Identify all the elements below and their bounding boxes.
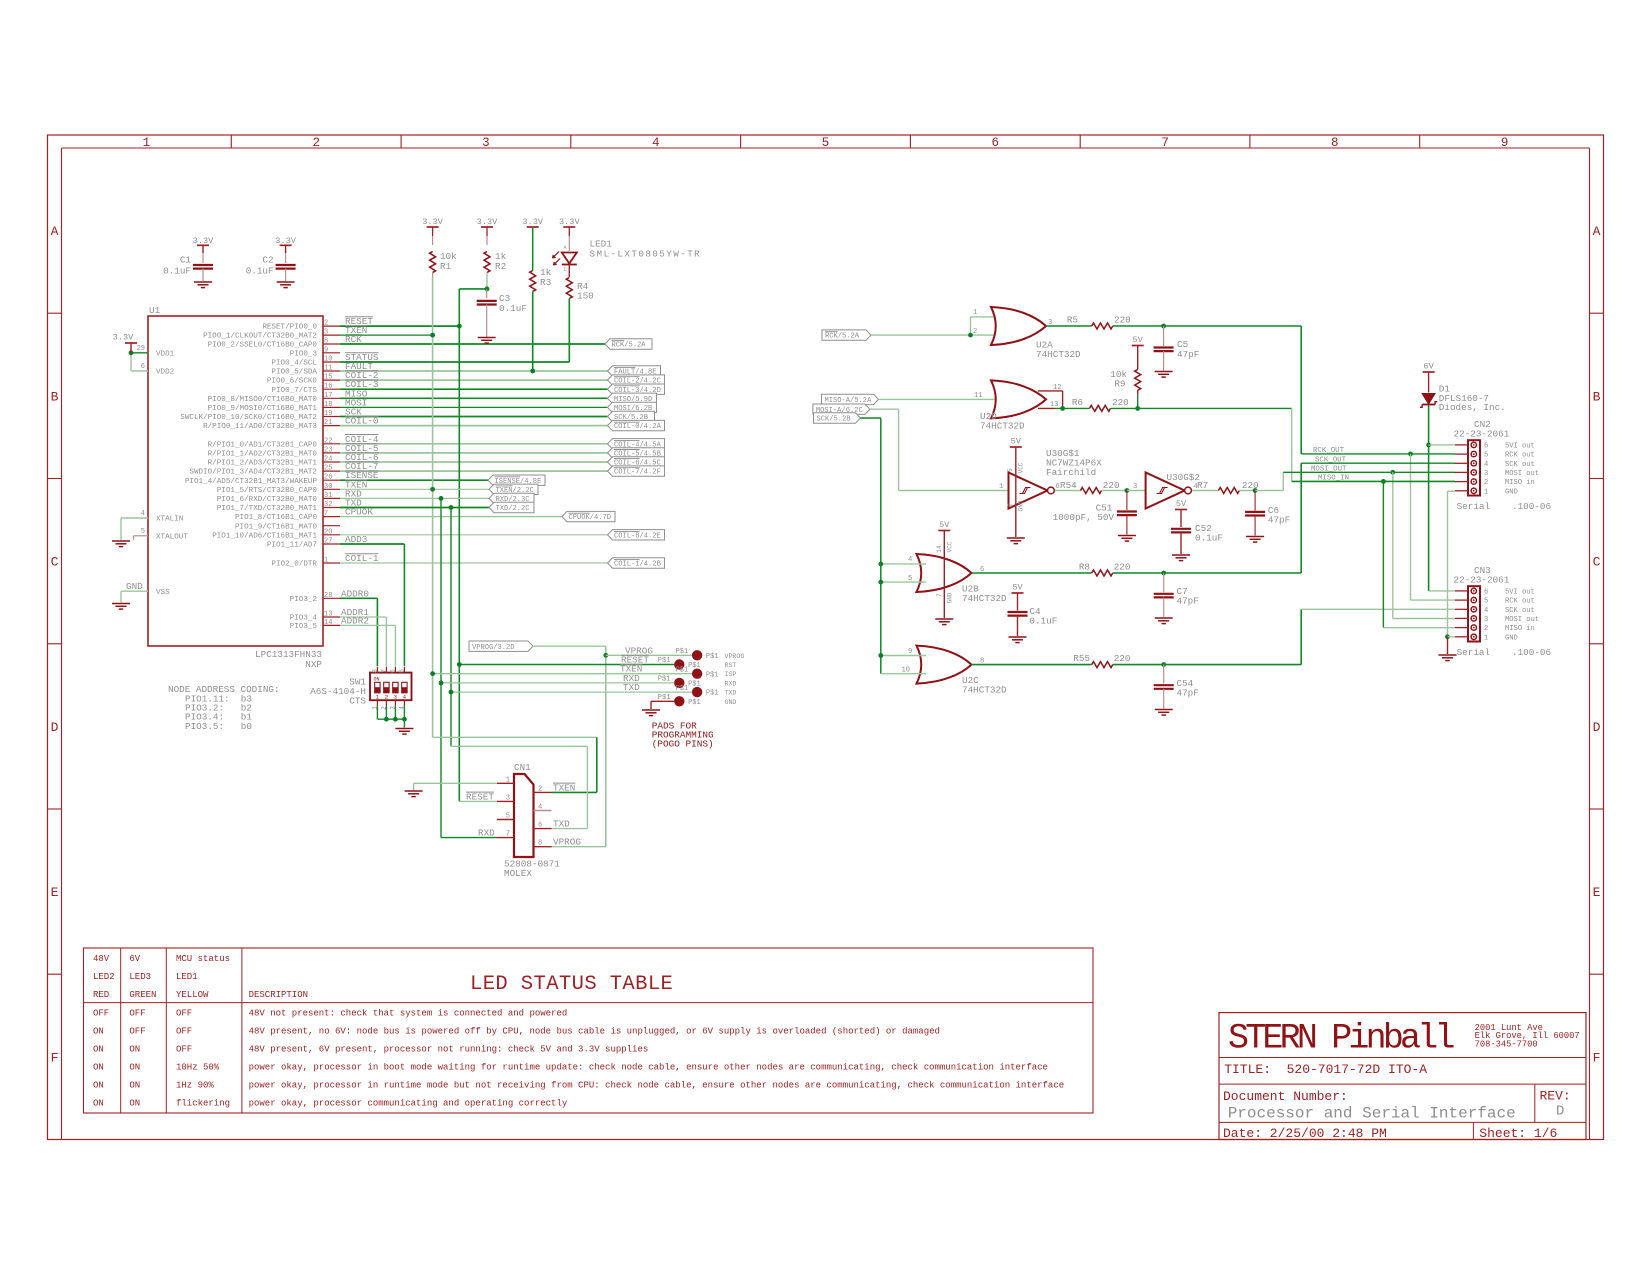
supply 3.3V for R2 (477, 217, 498, 227)
ground for U30G$1 (1007, 538, 1025, 544)
svg-text:ON: ON (129, 1099, 140, 1109)
U30G$1 names (1046, 448, 1102, 478)
svg-text:5VI out: 5VI out (1505, 588, 1535, 596)
junction SCK/U2B pin4 (878, 562, 883, 567)
svg-text:11: 11 (974, 392, 983, 400)
svg-text:3.3V: 3.3V (477, 217, 498, 227)
U2B pin labels (908, 556, 984, 583)
CN2 Serial note (1457, 501, 1551, 512)
wire SCK flag to riser (861, 417, 881, 419)
wire R9 top (1137, 346, 1139, 370)
wire TXEN vertical riser (432, 277, 434, 737)
supply 3.3V for R1 (422, 217, 443, 227)
svg-text:R/PIO1_0/AD1/CT32B1_CAP0: R/PIO1_0/AD1/CT32B1_CAP0 (208, 441, 318, 449)
wire U30G$1 out to R54 (1055, 490, 1081, 492)
svg-text:0.1uF: 0.1uF (246, 266, 274, 277)
svg-text:A: A (1593, 224, 1601, 239)
svg-text:PIO1_10/AD6/CT16B1_MAT1: PIO1_10/AD6/CT16B1_MAT1 (212, 532, 317, 540)
wire VPROG to CN1 pin8 (552, 846, 606, 848)
svg-text:5V: 5V (1133, 335, 1144, 345)
net label RESET at CN1 (466, 791, 494, 802)
connector CN1 body (514, 774, 534, 857)
svg-text:25: 25 (324, 465, 332, 473)
junction TXEN at flag row (430, 487, 435, 492)
svg-text:MOSI_OUT: MOSI_OUT (1311, 465, 1347, 473)
wire TXEN to ISP pad (433, 673, 692, 675)
svg-text:11: 11 (324, 365, 332, 373)
wire net CPUOK from U1 to flag (340, 516, 562, 518)
wire GND to ground symbol (1447, 637, 1449, 654)
net flag SCK/5.2B (input) (814, 413, 861, 424)
diode D1 DFLS160-7 (1420, 394, 1437, 408)
wire R9 bottom (1137, 390, 1139, 408)
wire C7 to ground (1163, 597, 1165, 617)
svg-text:RCK out: RCK out (1505, 452, 1535, 460)
svg-text:0.1uF: 0.1uF (1195, 533, 1223, 544)
note NODE ADDRESS CODING (168, 684, 280, 732)
svg-text:RXD: RXD (725, 680, 737, 687)
junction R54/C51 (1125, 488, 1130, 493)
svg-text:RCK out: RCK out (1505, 598, 1535, 606)
svg-text:48V: 48V (93, 954, 110, 964)
svg-text:PIO3_4: PIO3_4 (290, 615, 318, 623)
wire net COIL-5 from U1 to flag (340, 452, 608, 454)
svg-text:13: 13 (324, 611, 332, 619)
net label COIL-4 (345, 434, 379, 445)
svg-text:TXD: TXD (623, 682, 640, 693)
wire C54 to ground (1163, 689, 1165, 709)
svg-text:CPUOK/4.7D: CPUOK/4.7D (569, 514, 612, 522)
ground for U2B power (935, 619, 953, 625)
wire net COIL-2 from U1 to flag (340, 379, 608, 381)
svg-text:PIO0_1/CLKOUT/CT32B0_MAT2: PIO0_1/CLKOUT/CT32B0_MAT2 (203, 333, 317, 341)
supply 3.3V for R3 (522, 217, 543, 227)
U2C name labels (962, 675, 1007, 696)
wire U2D output (1055, 407, 1090, 409)
wire net FAULT from U1 to flag (340, 370, 608, 372)
wire MOSI_OUT to CN2 pin3 (1283, 471, 1455, 473)
svg-text:6: 6 (1484, 588, 1488, 596)
wire R55 to junction (1113, 664, 1164, 666)
wire C52 to ground (1180, 532, 1182, 554)
svg-text:Date: 2/25/00 2:48 PM: Date: 2/25/00 2:48 PM (1223, 1126, 1387, 1141)
net label COIL-2 (345, 370, 379, 381)
wire R2 to RESET junction (486, 273, 488, 289)
svg-text:3: 3 (1133, 483, 1137, 491)
resistor R3 1k (530, 267, 552, 292)
wire net COIL-6 from U1 to flag (340, 461, 608, 463)
junction U2A inputs (968, 333, 973, 338)
svg-text:A: A (564, 245, 567, 251)
svg-text:PIO0_5/SDA: PIO0_5/SDA (271, 369, 317, 377)
svg-text:PIO0_9/MOSI0/CT16B0_MAT1: PIO0_9/MOSI0/CT16B0_MAT1 (208, 405, 318, 413)
CN1 value 52808-0871 (504, 859, 560, 870)
wire net RXD (340, 497, 489, 499)
svg-text:GND: GND (126, 581, 143, 592)
svg-text:TXEN: TXEN (553, 782, 575, 793)
svg-text:220: 220 (1114, 315, 1131, 326)
svg-text:4: 4 (1484, 607, 1488, 615)
wire net RCK from U1 to flag (340, 343, 605, 345)
svg-text:YELLOW: YELLOW (176, 990, 209, 1000)
svg-text:MCU status: MCU status (176, 954, 230, 964)
ground for C52 (1172, 555, 1190, 561)
CN3 name label (1474, 565, 1491, 576)
svg-text:.100-06: .100-06 (1512, 647, 1551, 658)
junction TXEN at pin row (430, 333, 435, 338)
svg-text:1: 1 (999, 483, 1003, 491)
SW1 rocker actuators (375, 682, 407, 693)
wire C51 stub (1126, 491, 1128, 511)
svg-text:2: 2 (312, 136, 320, 150)
svg-text:E: E (51, 885, 59, 900)
svg-text:U1: U1 (149, 305, 161, 316)
svg-text:4: 4 (141, 510, 145, 518)
svg-text:3: 3 (506, 794, 510, 802)
svg-text:5: 5 (822, 136, 830, 150)
U30G$1 input pin label (999, 483, 1003, 491)
svg-text:GND: GND (947, 592, 954, 603)
wire C3 to ground (486, 305, 488, 338)
net label TXD at CN1 (553, 819, 570, 830)
resistor R1 10k (430, 251, 458, 273)
svg-text:OFF: OFF (129, 1009, 145, 1019)
svg-text:XTALOUT: XTALOUT (156, 533, 188, 541)
svg-text:2: 2 (973, 328, 977, 336)
svg-text:STERN Pinball: STERN Pinball (1228, 1019, 1454, 1059)
svg-text:47pF: 47pF (1268, 515, 1290, 526)
svg-text:22-23-2061: 22-23-2061 (1454, 429, 1510, 440)
CN1 pin stubs and numbers (497, 776, 552, 847)
wire net RESET from U1 pin 2 (340, 325, 459, 327)
net label TXEN (345, 325, 367, 336)
svg-text:8: 8 (1331, 136, 1339, 150)
inverter U30G$1 power rail (1015, 447, 1017, 537)
wire net TXD (340, 507, 489, 509)
svg-text:R/PIO1_1/AD2/CT32B1_MAT0: R/PIO1_1/AD2/CT32B1_MAT0 (208, 451, 318, 459)
svg-text:18: 18 (324, 401, 332, 409)
svg-text:19: 19 (324, 410, 332, 418)
wire RESET to RST pad (459, 664, 674, 666)
svg-text:R2: R2 (495, 261, 506, 272)
svg-text:3.3V: 3.3V (275, 236, 296, 246)
svg-text:9: 9 (908, 648, 912, 656)
svg-text:R54: R54 (1060, 480, 1077, 491)
junction TXD at pad row (449, 690, 454, 695)
svg-text:5V: 5V (939, 520, 950, 530)
wire R5 to junction (1113, 325, 1164, 327)
wire net COIL-7 from U1 to flag (340, 470, 608, 472)
U2D pin labels (974, 384, 1062, 409)
svg-text:7: 7 (1161, 136, 1169, 150)
resistor R7 220 (1197, 480, 1259, 494)
net label ADDR0 (341, 588, 369, 599)
wire LED1 anode (568, 227, 570, 251)
wire 6V rail down (1428, 406, 1430, 591)
net flag FAULT/4.8E (608, 366, 661, 377)
supply 3.3V for U1 (113, 333, 137, 353)
svg-text:MISO in: MISO in (1505, 479, 1535, 487)
svg-text:TXD: TXD (553, 819, 570, 830)
svg-text:SML-LXT0805YW-TR: SML-LXT0805YW-TR (590, 249, 702, 260)
svg-text:power okay, processor communic: power okay, processor communicating and … (249, 1099, 568, 1109)
junction SCK_OUT at C7 (1161, 571, 1166, 576)
net label SCK (345, 407, 362, 418)
svg-text:8: 8 (538, 840, 542, 848)
svg-text:VPROG: VPROG (725, 653, 745, 660)
title block outer box (1219, 1013, 1586, 1140)
svg-text:Fairchild: Fairchild (1046, 467, 1096, 478)
svg-text:VDD1: VDD1 (156, 350, 175, 358)
wire net SCK from U1 to flag (340, 416, 608, 418)
wire RXD vertical riser (440, 498, 442, 837)
svg-text:PIO0_6/SCK0: PIO0_6/SCK0 (267, 378, 318, 386)
svg-text:PIO0_8/MISO0/CT16B0_MAT0: PIO0_8/MISO0/CT16B0_MAT0 (208, 396, 318, 404)
title block dividers (1219, 1058, 1586, 1140)
wire VPROG flag to riser (533, 645, 606, 647)
svg-text:6: 6 (141, 363, 145, 371)
wire RXD to RXD pad (441, 682, 674, 684)
U30G$2 input label (1133, 483, 1137, 491)
wire R55 out to CN3 (1164, 609, 1455, 664)
junction RCK_OUT branch (1408, 452, 1413, 457)
SW1 pin stubs and rotated pin numbers (371, 667, 405, 710)
wire net COIL-8 from U1 to flag (340, 534, 608, 536)
svg-text:RCK_OUT: RCK_OUT (1313, 447, 1345, 455)
drawing frame inner border lines (62, 148, 1590, 1140)
ground for C6 (1246, 537, 1264, 543)
net label ADD3 (345, 534, 367, 545)
wire R2 supply stub (486, 227, 488, 245)
svg-text:COIL-8/4.2E: COIL-8/4.2E (614, 532, 661, 540)
net flag TXEN/2.2C (489, 484, 538, 495)
svg-text:48V present, 6V present, proce: 48V present, 6V present, processor not r… (249, 1045, 649, 1055)
svg-text:TITLE: 520-7017-72D ITO-A: TITLE: 520-7017-72D ITO-A (1224, 1062, 1427, 1077)
capacitor C2 0.1uF (246, 255, 296, 277)
svg-text:SWDIO/PIO1_3/AD4/CT32B1_MAT2: SWDIO/PIO1_3/AD4/CT32B1_MAT2 (189, 469, 317, 477)
frame row tick marks (48, 313, 1604, 974)
svg-text:MISO in: MISO in (1505, 625, 1535, 633)
note PADS FOR PROGRAMMING (652, 720, 714, 749)
title block address (1475, 1023, 1580, 1050)
net flag MOSI/6.2B (608, 402, 657, 413)
wire net MOSI from U1 to flag (340, 406, 608, 408)
wire R3 supply (532, 227, 534, 271)
svg-text:VDD2: VDD2 (156, 369, 175, 377)
svg-text:1: 1 (506, 776, 510, 784)
svg-text:MOSI out: MOSI out (1505, 616, 1539, 624)
resistor R4 150 (566, 278, 593, 302)
U30G$2 name (1167, 472, 1200, 483)
DIP switch SW1 body (370, 673, 412, 701)
title block revision D (1556, 1104, 1564, 1120)
net label TXEN pin30 (345, 479, 367, 490)
svg-text:OFF: OFF (176, 1009, 192, 1019)
U1 pin 6 VDD2 stub (131, 363, 175, 376)
svg-text:5: 5 (1484, 598, 1488, 606)
net flag ISENSE/4.8E (488, 475, 545, 486)
wire net ADDR1 (340, 616, 386, 618)
svg-text:2: 2 (1007, 503, 1014, 507)
svg-text:4: 4 (652, 136, 660, 150)
svg-text:2: 2 (324, 320, 328, 328)
U2B power rail (943, 531, 945, 619)
svg-text:2: 2 (1484, 479, 1488, 487)
svg-text:LED1: LED1 (176, 972, 198, 982)
svg-text:3: 3 (394, 694, 398, 701)
junction R3/FAULT (530, 369, 535, 374)
svg-text:31: 31 (324, 492, 332, 500)
svg-text:PIO0_7/CTS: PIO0_7/CTS (271, 387, 317, 395)
svg-text:22-23-2061: 22-23-2061 (1454, 575, 1510, 586)
wire R6 to MISO_IN corner (1111, 408, 1292, 481)
svg-text:D: D (1556, 1104, 1564, 1120)
net label GND at VSS (126, 581, 143, 592)
svg-text:5: 5 (398, 669, 405, 673)
wire MOSI_OUT branch to CN3 pin3 (1393, 472, 1455, 618)
title block Date row (1223, 1126, 1387, 1141)
U2D pin 12-13 tie (1038, 391, 1063, 409)
svg-text:MOLEX: MOLEX (504, 868, 532, 879)
OR gate U2C 74HCT32D (917, 646, 972, 684)
svg-text:9: 9 (324, 346, 328, 354)
CN3 value label (1454, 575, 1510, 586)
svg-text:TXD: TXD (345, 498, 362, 509)
wire net STATUS (340, 361, 569, 363)
svg-text:10Hz 50%: 10Hz 50% (176, 1063, 220, 1073)
wire SCK_OUT to corner (1164, 463, 1302, 573)
wire R1 bottom (432, 273, 434, 278)
resistor R55 220 (1073, 653, 1130, 668)
LED status table outer box (84, 948, 1094, 1113)
capacitor C6 47pF (1245, 505, 1290, 526)
svg-text:220: 220 (1112, 397, 1129, 408)
wire TXEN pin30 from pin (340, 488, 433, 490)
net flag COIL-5/4.5B (608, 448, 665, 459)
svg-text:LED STATUS TABLE: LED STATUS TABLE (470, 973, 673, 996)
capacitor C51 1000pF (1053, 503, 1137, 524)
svg-text:CN1: CN1 (514, 762, 531, 773)
svg-text:E: E (1593, 885, 1601, 900)
wire R7 to C6 node (1239, 490, 1255, 492)
net flag MOSI-A/6.2C (input) (813, 404, 870, 415)
svg-text:RXD: RXD (478, 828, 495, 839)
net flag COIL-3/4.2D (608, 384, 665, 395)
net label RXD (345, 488, 362, 499)
svg-text:2: 2 (385, 694, 389, 701)
svg-text:RCK/5.2A: RCK/5.2A (612, 342, 647, 350)
svg-text:3.3V: 3.3V (522, 217, 543, 227)
net label COIL-3 (345, 379, 379, 390)
svg-text:5V: 5V (1012, 583, 1023, 593)
net flag COIL-6/4.5C (608, 457, 665, 468)
net flag RXD/2.3C (489, 493, 534, 504)
wire net COIL-1 from U1 to flag (340, 562, 608, 564)
svg-text:2: 2 (538, 785, 542, 793)
wire R54 to C51 node (1102, 490, 1127, 492)
svg-text:ON: ON (93, 1063, 104, 1073)
svg-text:PIO1_5/RTS/CT32B0_CAP0: PIO1_5/RTS/CT32B0_CAP0 (217, 487, 318, 495)
svg-text:48V present, no 6V: node bus i: 48V present, no 6V: node bus is powered … (249, 1027, 940, 1037)
svg-text:NXP: NXP (305, 659, 322, 670)
svg-text:Document Number:: Document Number: (1223, 1089, 1348, 1104)
ground for CN1 pin1 (405, 791, 423, 797)
wire C5 stub (1163, 326, 1165, 346)
svg-text:GND: GND (1505, 634, 1518, 642)
net label RXD at pads (623, 673, 640, 684)
svg-text:RESET/PIO0_0: RESET/PIO0_0 (262, 324, 317, 332)
svg-text:PIO3_5: PIO3_5 (290, 623, 318, 631)
resistor R2 1k (484, 251, 507, 273)
drawing frame outer border (48, 135, 1604, 1140)
net label VPROG at pads (625, 645, 653, 656)
svg-text:3: 3 (1484, 470, 1488, 478)
pogo pad P$1 (RXD) (658, 676, 737, 689)
svg-text:ISP: ISP (725, 671, 737, 678)
ground for VSS (112, 604, 130, 610)
svg-text:1: 1 (1484, 634, 1488, 642)
U2B rotated power labels (936, 541, 954, 603)
svg-text:C2: C2 (262, 255, 273, 266)
junction RESET at pad row (457, 662, 462, 667)
svg-text:3: 3 (482, 136, 490, 150)
wire ADDR1 vertical to SW1 (385, 617, 387, 666)
LED status table header cells (93, 954, 308, 1000)
ground for C7 (1155, 618, 1173, 624)
junction R7/C6 (1253, 488, 1258, 493)
wire ADD3 vertical to SW1 (403, 544, 405, 666)
svg-text:B: B (1593, 389, 1601, 404)
wire net MISO from U1 to flag (340, 397, 608, 399)
net label COIL-5 (345, 443, 379, 454)
LED1 value label (590, 249, 702, 260)
svg-text:30: 30 (324, 483, 332, 491)
svg-text:PIO0_2/SSEL0/CT16B0_CAP0: PIO0_2/SSEL0/CT16B0_CAP0 (208, 342, 318, 350)
junction RCK_OUT at C5 (1161, 324, 1166, 329)
net label RESET at pads (621, 655, 649, 666)
svg-text:PIO3_2: PIO3_2 (290, 596, 318, 604)
pogo pad P$1 (RST) (658, 657, 737, 670)
svg-text:14: 14 (936, 545, 943, 553)
capacitor C5 47pF (1154, 339, 1200, 360)
LED LED1 (553, 245, 577, 273)
net label TXEN at CN1 (553, 782, 575, 793)
capacitor C7 47pF (1154, 586, 1199, 607)
svg-text:PIO1_7/TXD/CT32B0_MAT1: PIO1_7/TXD/CT32B0_MAT1 (217, 505, 318, 513)
svg-text:GREEN: GREEN (129, 990, 156, 1000)
OR gate U2D 74HCT32D (991, 380, 1046, 418)
svg-text:4: 4 (1484, 461, 1488, 469)
CN2 name label (1474, 419, 1491, 430)
junctions on SW1 bus (384, 717, 407, 722)
supply 3.3V for C2 (275, 236, 296, 246)
svg-text:14: 14 (324, 619, 332, 627)
ground for C1 (194, 282, 212, 288)
connector CN3 22-23-2061 (1455, 586, 1539, 642)
wire C2 to ground (285, 269, 287, 281)
wire MOSI-A vertical riser (898, 409, 900, 490)
U1 pin 4 XTALIN (121, 510, 183, 524)
svg-text:OFF: OFF (176, 1045, 192, 1055)
schmitt inverter U30G$2 (1146, 473, 1192, 509)
wire XTALIN down (120, 518, 122, 540)
title block document name (1228, 1105, 1516, 1123)
supply 6V for D1 (1423, 362, 1435, 373)
svg-text:5: 5 (908, 575, 912, 583)
svg-text:COIL-1/4.2B: COIL-1/4.2B (614, 561, 661, 569)
LED status table header line (84, 1002, 1094, 1004)
svg-text:7: 7 (380, 669, 387, 673)
